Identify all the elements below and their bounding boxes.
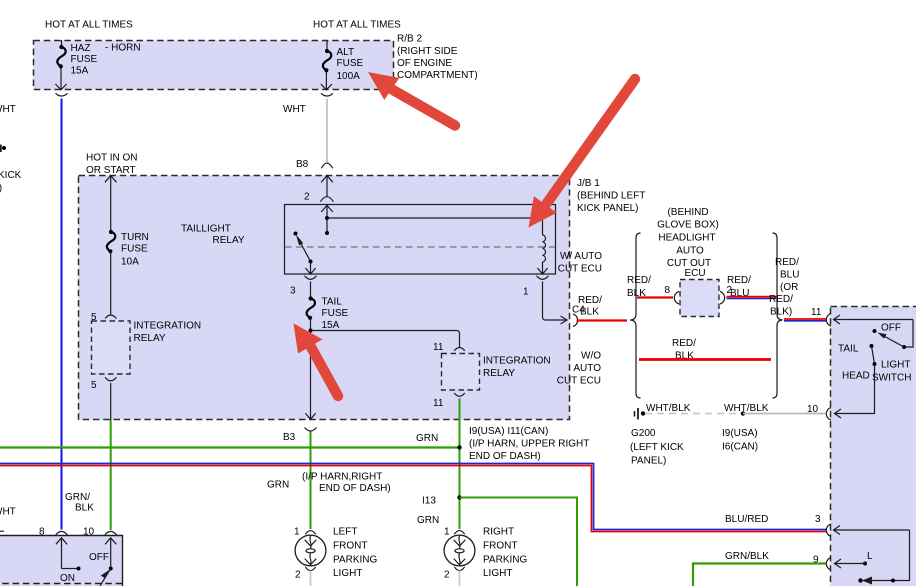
lamp left front parking light (294, 527, 326, 586)
svg-text:(I/P HARN,RIGHT: (I/P HARN,RIGHT (302, 472, 382, 483)
connector pin 11 light switch (826, 314, 831, 327)
wire WHT/BLK solid gray to pin 10 (743, 413, 826, 415)
wire green horizontal feed (0, 446, 460, 448)
wire turn fuse feed with arrow (105, 175, 117, 232)
svg-text:AUTO: AUTO (573, 363, 601, 374)
svg-text:RED/: RED/ (727, 275, 751, 286)
brace right (773, 233, 783, 398)
svg-text:RELAY: RELAY (213, 235, 245, 246)
light switch box (dashed, right bottom) (831, 307, 916, 586)
svg-text:FUSE: FUSE (337, 58, 364, 69)
relay switch (294, 232, 298, 236)
svg-text:FUSE: FUSE (121, 244, 148, 255)
relay mechanical dashed line (285, 246, 555, 248)
svg-text:1: 1 (294, 527, 300, 538)
svg-text:100A: 100A (337, 71, 361, 82)
svg-text:SWITCH: SWITCH (872, 373, 911, 384)
svg-text:BLK: BLK (580, 307, 599, 318)
svg-text:BLK: BLK (75, 503, 94, 514)
svg-text:GRN: GRN (267, 480, 289, 491)
node junction tail fuse (309, 329, 313, 333)
wire red to brace (577, 319, 628, 321)
svg-text:FUSE: FUSE (322, 308, 349, 319)
svg-text:OFF: OFF (881, 323, 901, 334)
svg-text:RELAY: RELAY (134, 333, 166, 344)
annotation arrow 1 (ALT fuse) (368, 72, 455, 126)
svg-text:TAIL: TAIL (838, 344, 859, 355)
svg-text:2: 2 (444, 570, 450, 581)
fuse HAZ 15A (55, 40, 66, 90)
svg-text:11: 11 (433, 398, 444, 409)
svg-text:8: 8 (39, 527, 45, 538)
pin 11 bottom IR2 (454, 393, 465, 396)
svg-text:11: 11 (433, 342, 444, 353)
svg-text:WHT/BLK: WHT/BLK (724, 403, 769, 414)
svg-text:GRN/BLK: GRN/BLK (725, 551, 769, 562)
fuse TAIL 15A (307, 299, 315, 318)
svg-text:FRONT: FRONT (333, 541, 367, 552)
svg-text:15A: 15A (71, 66, 89, 77)
hazard switch box (bottom left, cut off) (0, 536, 123, 586)
svg-text:HOT AT ALL TIMES: HOT AT ALL TIMES (45, 20, 133, 31)
J/B 1 box (dashed, middle) (79, 176, 570, 420)
switch arm to OFF (882, 335, 904, 347)
arrow into pin 11 (833, 315, 913, 324)
svg-text:- HORN: - HORN (105, 43, 141, 54)
wire green box edge to hazard switch pin 10 (110, 420, 112, 530)
svg-text:1: 1 (523, 287, 529, 298)
svg-text:CUT ECU: CUT ECU (557, 376, 601, 387)
wire pin3 to tail fuse (310, 282, 312, 299)
light switch internals (905, 320, 914, 348)
svg-text:END OF DASH): END OF DASH) (469, 451, 541, 462)
svg-text:LIGHT: LIGHT (483, 568, 512, 579)
svg-text:3: 3 (815, 514, 821, 525)
svg-text:WHT/BLK: WHT/BLK (646, 403, 691, 414)
wire red/blu ECU to right brace (727, 296, 778, 298)
wire inside switch from pin3 (864, 530, 910, 581)
relay coil (543, 235, 546, 262)
node I9 junction (741, 411, 745, 415)
svg-text:TURN: TURN (121, 232, 149, 243)
connector pin 10 light switch (826, 408, 831, 421)
connector pin 9 light switch (826, 558, 831, 571)
svg-text:R/B 2: R/B 2 (397, 34, 422, 45)
svg-text:BLU: BLU (780, 270, 799, 281)
svg-text:HOT IN ON: HOT IN ON (86, 153, 137, 164)
svg-text:B3: B3 (283, 432, 296, 443)
svg-text:GRN: GRN (417, 515, 439, 526)
wire grn/blk (693, 564, 826, 586)
svg-text:W/ AUTO: W/ AUTO (560, 251, 602, 262)
svg-text:OR START: OR START (86, 165, 136, 176)
svg-text:(OR: (OR (780, 282, 798, 293)
svg-text:I9(USA) I11(CAN): I9(USA) I11(CAN) (469, 426, 548, 437)
svg-text:(LEFT KICK: (LEFT KICK (630, 442, 684, 453)
svg-text:(I/P HARN, UPPER RIGHT: (I/P HARN, UPPER RIGHT (469, 439, 589, 450)
svg-text:INTEGRATION: INTEGRATION (483, 356, 551, 367)
arm tail-head (872, 346, 875, 364)
svg-text:OF ENGINE: OF ENGINE (397, 58, 452, 69)
svg-text:RED/: RED/ (672, 338, 696, 349)
svg-text:PARKING: PARKING (483, 555, 527, 566)
wire red/blu brace to pin 11 (784, 318, 826, 320)
wire fuse to integration relay pin 5 (110, 251, 112, 314)
svg-text:LEFT: LEFT (333, 527, 357, 538)
svg-text:G200: G200 (631, 428, 656, 439)
brace left (headlight ecu split) (630, 233, 641, 398)
svg-text:WHT: WHT (0, 104, 16, 115)
svg-text:10A: 10A (121, 257, 139, 268)
svg-text:LIGHT: LIGHT (881, 360, 910, 371)
svg-text:FUSE: FUSE (71, 54, 98, 65)
svg-text:L: L (867, 551, 873, 562)
svg-text:2: 2 (304, 192, 310, 203)
taillight relay box (solid) (285, 205, 556, 275)
connector C4 at J/B edge (573, 314, 578, 327)
node B8 arrow into J/B (321, 175, 333, 196)
connector pin 3 light switch (826, 524, 831, 537)
lamp right front parking light (444, 527, 475, 586)
pin under ALT fuse (321, 93, 333, 96)
wire green branch right down (460, 498, 578, 586)
svg-text:HAZ: HAZ (71, 43, 91, 54)
integration relay IR2 box (442, 354, 480, 391)
wire WHT/BLK dashed gray (645, 413, 743, 415)
ECU box (680, 280, 719, 317)
fuse TURN 10A (107, 232, 115, 251)
svg-text:10: 10 (83, 527, 95, 538)
svg-text:RED/: RED/ (769, 294, 793, 305)
ground G200 (635, 408, 646, 420)
node I13 (457, 495, 461, 499)
annotation arrow 3 (tail fuse) (294, 323, 339, 396)
svg-text:B8: B8 (296, 159, 309, 170)
svg-text:15A: 15A (322, 320, 340, 331)
svg-text:ECU: ECU (684, 268, 705, 279)
svg-text:W/O: W/O (581, 351, 601, 362)
svg-text:1: 1 (444, 527, 450, 538)
svg-text:I6(CAN): I6(CAN) (722, 442, 758, 453)
wire green IR2 down across box edge (459, 399, 461, 530)
svg-text:2: 2 (295, 570, 301, 581)
annotation arrow 2 (relay coil) (529, 79, 636, 228)
wire blue HAZ fuse to hazard switch pin 8 (61, 99, 63, 530)
connector pin 8 ECU (674, 292, 679, 305)
svg-text:COMPARTMENT): COMPARTMENT) (397, 70, 478, 81)
svg-text:INTEGRATION: INTEGRATION (134, 321, 202, 332)
wire IR1 pin5 to box edge (black) (110, 383, 112, 420)
svg-text:8: 8 (665, 285, 671, 296)
svg-text:(BEHIND LEFT: (BEHIND LEFT (577, 191, 645, 202)
svg-text:BLK): BLK) (770, 307, 792, 318)
svg-text:TAILLIGHT: TAILLIGHT (181, 223, 231, 234)
connector pin 2 ECU (720, 292, 725, 305)
svg-text:KICK: KICK (0, 170, 22, 181)
wire fuse to junction (310, 318, 312, 331)
pin B8 (321, 163, 332, 168)
svg-text:BLU/RED: BLU/RED (725, 514, 768, 525)
relay coil feed line (325, 216, 329, 220)
wire WHT ALT fuse to B8 (326, 99, 328, 163)
node green junction (457, 445, 461, 449)
svg-text:.): .) (0, 183, 2, 194)
svg-text:RELAY: RELAY (483, 368, 515, 379)
left edge pin (cut) (0, 531, 4, 535)
svg-text:RED/: RED/ (627, 275, 651, 286)
fuse ALT 100A (321, 40, 332, 90)
svg-text:I13: I13 (422, 496, 436, 507)
pin under HAZ fuse (56, 93, 68, 96)
svg-text:FRONT: FRONT (483, 541, 517, 552)
svg-text:HOT AT ALL TIMES: HOT AT ALL TIMES (313, 20, 401, 31)
svg-text:WHT: WHT (283, 104, 306, 115)
svg-text:KICK PANEL): KICK PANEL) (577, 203, 639, 214)
svg-text:END OF DASH): END OF DASH) (319, 483, 391, 494)
svg-text:HEAD: HEAD (842, 371, 870, 382)
svg-text:WHT: WHT (0, 507, 16, 518)
pin B3 (305, 428, 317, 432)
svg-text:11: 11 (811, 307, 822, 318)
R/B 2 fuse box (dashed, top) (34, 41, 394, 90)
svg-text:RIGHT: RIGHT (483, 527, 514, 538)
svg-text:TAIL: TAIL (322, 297, 343, 308)
svg-text:J/B 1: J/B 1 (577, 178, 600, 189)
svg-text:RED/: RED/ (775, 257, 799, 268)
wire green B3 to left lamp (310, 432, 312, 530)
svg-text:5: 5 (91, 380, 97, 391)
svg-text:(BEHIND: (BEHIND (667, 207, 708, 218)
svg-text:CUT ECU: CUT ECU (558, 264, 602, 275)
svg-text:LIGHT: LIGHT (333, 568, 362, 579)
svg-text:OFF: OFF (89, 552, 109, 563)
svg-text:3: 3 (290, 286, 296, 297)
svg-text:ON: ON (60, 573, 75, 584)
pin 8 arrow + wire to ON contact (56, 538, 67, 569)
wire junction to B3 with arrow (305, 331, 315, 420)
svg-text:GRN/: GRN/ (65, 492, 90, 503)
svg-text:AUTO: AUTO (676, 246, 704, 257)
wire C4 red/blk: relay pin1 down and right (543, 282, 568, 325)
svg-text:PANEL): PANEL) (631, 456, 666, 467)
wire blu/red horizontal to light switch pin 3 (0, 464, 826, 530)
svg-text:(RIGHT SIDE: (RIGHT SIDE (397, 46, 458, 57)
pin 5 bottom (105, 377, 116, 381)
integration relay IR1 box (92, 321, 131, 374)
svg-text:PARKING: PARKING (333, 555, 377, 566)
svg-text:HEADLIGHT: HEADLIGHT (658, 233, 715, 244)
wire junction to IR2 pin 11 (311, 331, 460, 348)
wire head to pin 10 (834, 364, 875, 418)
svg-text:ALT: ALT (337, 47, 355, 58)
svg-text:I9(USA): I9(USA) (722, 428, 758, 439)
svg-text:GLOVE BOX): GLOVE BOX) (657, 220, 719, 231)
svg-text:GRN: GRN (416, 433, 438, 444)
